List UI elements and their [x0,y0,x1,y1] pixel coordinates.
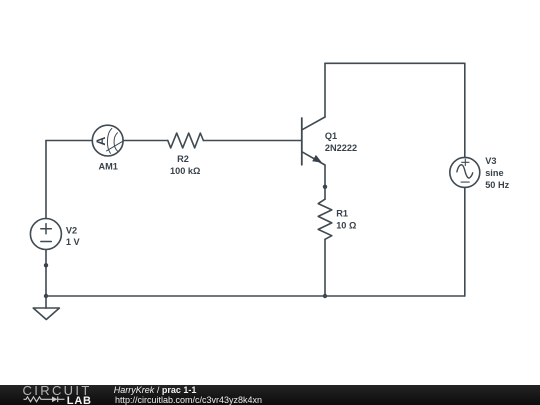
wire left vertical (corner down to V2 top) [45,141,47,219]
top rail wire [325,62,465,64]
voltage source V2 [30,219,61,250]
wire collector up [324,63,326,117]
svg-text:sine: sine [485,168,503,178]
wire R2 to transistor base [203,140,301,142]
CircuitLab logo resistor and diode glyph [24,397,58,403]
wire from left corner to ammeter [46,140,92,142]
transistor Q1 [302,117,325,165]
footer url line [115,395,262,405]
svg-text:R1: R1 [336,208,348,218]
wire R1 to bottom rail [324,239,326,296]
junction node at bottom rail [323,294,327,298]
svg-text:AM1: AM1 [98,161,117,171]
resistor R2 [168,133,204,148]
junction node below V2 [44,263,48,267]
junction node at emitter/R1 [323,185,327,189]
ground [33,308,59,320]
svg-text:R2: R2 [177,154,189,164]
footer bar [0,385,540,405]
bottom rail wire [46,295,465,297]
resistor R1 [318,199,332,239]
svg-text:A: A [94,137,108,146]
wire ammeter to R2 [123,140,168,142]
svg-text:1 V: 1 V [66,237,81,247]
svg-text:LAB: LAB [67,395,92,405]
wire junction to R1 [324,187,326,199]
svg-text:2N2222: 2N2222 [325,143,357,153]
svg-text:10 Ω: 10 Ω [336,220,356,230]
sine source V3 [450,157,480,187]
wire emitter down to junction [324,165,326,187]
ammeter AM1 [92,125,124,156]
wire to ground [45,296,47,308]
svg-text:V2: V2 [66,226,77,236]
svg-text:Q1: Q1 [325,131,337,141]
junction node bottom-left [44,294,48,298]
svg-text:100 kΩ: 100 kΩ [170,166,200,176]
wire V3 top [464,63,466,157]
svg-text:50 Hz: 50 Hz [485,180,509,190]
footer attribution line [114,385,197,395]
wire V3 bottom [464,187,466,296]
svg-text:V3: V3 [485,156,496,166]
wire V2 bottom down [45,250,47,297]
